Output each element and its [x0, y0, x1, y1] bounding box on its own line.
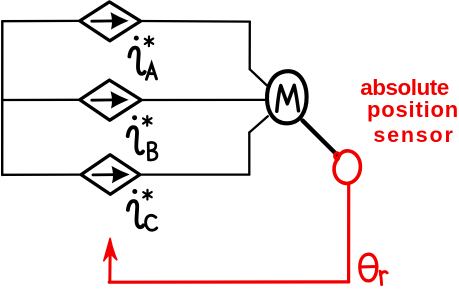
motor letter M	[277, 85, 299, 111]
label subscript c of i*_C	[146, 215, 157, 230]
wire row C left segment	[2, 173, 81, 175]
label subscript A of i*_A	[146, 64, 156, 79]
wire row B right segment into motor	[141, 99, 267, 101]
wire row B left segment	[2, 99, 80, 101]
wire row C slant into motor	[249, 116, 267, 132]
current source i*C diamond	[81, 155, 140, 195]
svg-text:sensor: sensor	[373, 123, 454, 147]
red arrowhead theta_r	[104, 238, 117, 260]
wire row A slant into motor	[250, 69, 269, 87]
motor shaft to sensor	[303, 121, 338, 155]
label i* of i*_C	[128, 189, 152, 227]
current source i*C arrow	[93, 167, 128, 182]
motor M circle	[267, 71, 307, 123]
label theta_r (red)	[360, 254, 387, 284]
current source i*B diamond	[80, 80, 141, 120]
sensor entry loop (red)	[335, 153, 340, 159]
label i* of i*_B	[128, 115, 152, 153]
wire left bus vertical	[1, 21, 3, 175]
label absolute position sensor (red)	[360, 75, 459, 147]
red wire bottom horizontal	[109, 280, 348, 284]
wire row A vertical drop	[249, 22, 251, 70]
current source i*A arrow	[92, 13, 128, 28]
wire row C right segment	[140, 173, 250, 175]
current source i*A diamond	[80, 2, 141, 41]
wire row C vertical rise	[248, 133, 250, 175]
wire row A left segment	[2, 20, 80, 23]
current source i*B arrow	[92, 92, 128, 107]
label subscript B of i*_B	[148, 142, 157, 160]
wire row A right segment to corner	[141, 20, 250, 23]
svg-text:position: position	[367, 97, 459, 122]
red wire sensor down	[347, 184, 350, 282]
sensor circle (red)	[334, 151, 360, 184]
label i* of i*_A (dot, asterisk, cursive i)	[129, 36, 153, 74]
red wire arrow stem up	[108, 247, 111, 282]
